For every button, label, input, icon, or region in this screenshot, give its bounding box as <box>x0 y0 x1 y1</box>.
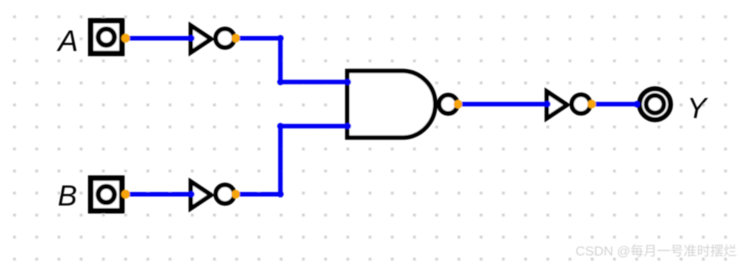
junction dot U3 input 2 <box>345 123 352 130</box>
corner dot wire B top <box>277 123 283 129</box>
svg-text:Y: Y <box>687 93 709 125</box>
input terminal B <box>91 178 122 211</box>
wire: input B to inverter U2 <box>126 192 191 197</box>
corner dot wire A top <box>277 35 283 41</box>
wire: input A to inverter U1 <box>126 36 191 41</box>
wire: U2 output to NAND input 2 <box>236 126 348 194</box>
wire: NAND output to inverter U4 <box>458 102 548 107</box>
output terminal Y <box>640 89 671 120</box>
junction dot Y input <box>634 101 641 108</box>
pin dot B output <box>121 190 130 199</box>
svg-text:CSDN @每月一号准时摆烂: CSDN @每月一号准时摆烂 <box>576 244 737 259</box>
pin dot U2 output <box>231 190 240 199</box>
pin dot A output <box>121 34 130 43</box>
not-gate U2 <box>191 182 235 209</box>
junction dot U3 input 1 <box>345 79 352 86</box>
corner dot wire B bottom <box>277 191 283 197</box>
junction dot U4 input <box>544 101 551 108</box>
corner dot wire A bottom <box>277 79 283 85</box>
not-gate U1 <box>191 26 235 53</box>
pin dot U3 output <box>454 100 463 109</box>
junction dot U2 input <box>188 191 195 198</box>
svg-text:B: B <box>58 181 77 213</box>
junction dot U1 input <box>188 35 195 42</box>
pin dot U4 output <box>587 100 596 109</box>
wire: U1 output to NAND input 1 <box>236 38 348 82</box>
input terminal A <box>91 21 122 54</box>
pin dot U1 output <box>231 34 240 43</box>
not-gate U4 <box>547 92 591 119</box>
nand-gate U3 <box>347 71 457 138</box>
wire: U4 output to output Y <box>592 102 638 107</box>
svg-text:A: A <box>56 25 78 58</box>
